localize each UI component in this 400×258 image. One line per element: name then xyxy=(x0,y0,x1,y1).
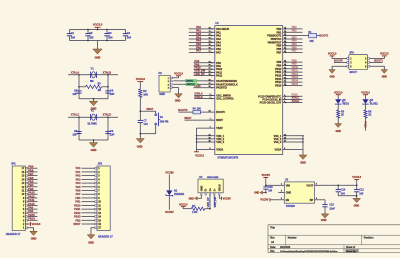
pin 15 of JP1 xyxy=(21,174,27,178)
svg-text:PB7: PB7 xyxy=(276,50,281,54)
wire right leg crystal2 xyxy=(107,117,109,140)
pin PB12 (right, pin 25) xyxy=(275,72,302,78)
svg-text:RED1: RED1 xyxy=(343,102,350,105)
ground (BP cap) xyxy=(321,214,329,222)
svg-text:GND: GND xyxy=(254,192,259,195)
svg-text:HEADER 17: HEADER 17 xyxy=(6,232,21,236)
power port VCC3.3 (P2 pin1) xyxy=(172,72,183,78)
wire + net label PA8 (JP1 pin 5) xyxy=(28,209,38,213)
svg-text:Date:: Date: xyxy=(270,246,276,249)
pin PA0-WKUP (left, pin 10) with wire and net label PA0 xyxy=(189,25,230,31)
svg-text:8M: 8M xyxy=(90,79,94,83)
node XTALC xyxy=(71,113,80,117)
pin 4 of P2 xyxy=(168,87,173,90)
svg-text:HEADER 17: HEADER 17 xyxy=(98,234,113,238)
power port VCC3.3 (JP3 right) xyxy=(370,53,390,59)
svg-text:VCC5V: VCC5V xyxy=(223,197,231,200)
pin VSSA (pin 8) xyxy=(275,147,303,151)
connector JP1 HEADER 17 xyxy=(6,162,26,236)
svg-text:VCC3.3: VCC3.3 xyxy=(361,91,370,94)
pin 15 of JP2 xyxy=(95,218,102,222)
power port VCC3.3 (R7) xyxy=(179,203,188,208)
pin 13 of JP1 xyxy=(21,181,27,185)
svg-text:BOOT: BOOT xyxy=(350,70,358,74)
svg-text:10K: 10K xyxy=(143,92,148,96)
pin PB15 (right, pin 28) xyxy=(275,82,302,88)
svg-text:104: 104 xyxy=(268,189,273,192)
power port VCC3.3 (U3 VOUT) xyxy=(352,175,361,186)
svg-text:GND: GND xyxy=(286,192,292,195)
svg-text:PC13: PC13 xyxy=(364,121,368,128)
ground (reset) xyxy=(136,133,144,149)
svg-text:XTALD: XTALD xyxy=(292,100,300,103)
svg-text:PB11: PB11 xyxy=(74,207,81,211)
svg-text:PA7: PA7 xyxy=(76,192,81,196)
push button S1 SW-PB xyxy=(155,113,169,127)
svg-text:JP3: JP3 xyxy=(349,50,354,54)
crystal Y1 8M xyxy=(90,66,96,83)
svg-text:GND: GND xyxy=(321,218,327,222)
pin 5 of JP1 xyxy=(23,211,28,215)
wire + net label PB8 (JP1 pin 16) xyxy=(28,168,38,172)
pin PB13 (right, pin 26) xyxy=(275,75,302,81)
pin 7 of JP1 xyxy=(23,203,28,207)
svg-text:PB7: PB7 xyxy=(28,172,34,176)
pin BP (4) xyxy=(310,197,319,202)
pin 11 of JP1 xyxy=(22,189,28,193)
pin 4 of JP2 xyxy=(95,177,100,181)
pin PB2/BOOT1 (right, pin 20) xyxy=(267,34,287,38)
svg-text:104: 104 xyxy=(127,36,132,40)
svg-text:Number: Number xyxy=(288,236,297,239)
wire + net label PA3 (JP2 pin 4) xyxy=(76,177,95,181)
wire U4 D- down with vertical net label USB_DM xyxy=(214,195,217,208)
svg-text:PA12: PA12 xyxy=(28,194,35,198)
capacitor C2 xyxy=(85,30,94,41)
svg-text:C12: C12 xyxy=(359,189,364,192)
pin 1 of JP2 xyxy=(95,166,100,170)
capacitor C4 xyxy=(123,30,132,41)
wire + net label PB6 (JP1 pin 14) xyxy=(28,176,38,180)
svg-text:USB_DM: USB_DM xyxy=(214,197,217,207)
pin 2 of P2 xyxy=(168,80,173,83)
capacitor C6 xyxy=(105,89,114,96)
pin 6 of JP1 xyxy=(23,207,28,211)
svg-text:104: 104 xyxy=(341,193,346,196)
svg-text:PA8: PA8 xyxy=(28,209,33,213)
pin BOOT0 (pin 44) xyxy=(201,110,226,115)
wire + net label PA1 (JP2 pin 2) xyxy=(76,170,95,174)
pin PB14 (right, pin 27) xyxy=(275,78,302,84)
svg-text:PA7: PA7 xyxy=(216,50,221,54)
pin D- of U4 (vertical label) xyxy=(212,188,216,195)
pin PB0 (right, pin 18) xyxy=(276,25,302,31)
svg-text:VSSA: VSSA xyxy=(275,147,282,151)
svg-text:USB_DP: USB_DP xyxy=(207,197,210,207)
wire crystal1 horizontal xyxy=(68,74,118,76)
svg-text:Title: Title xyxy=(270,226,276,229)
ground (crystal2) xyxy=(89,140,97,152)
pin PB1 (right, pin 19) xyxy=(276,29,302,35)
svg-text:PB15: PB15 xyxy=(292,82,299,86)
connector JP2 HEADER 17 xyxy=(97,162,113,239)
resistor R3 (crystal feedback) xyxy=(79,82,108,92)
svg-text:22P: 22P xyxy=(73,132,78,136)
svg-text:PB10: PB10 xyxy=(74,203,81,207)
ground (P2 pin4) xyxy=(172,88,182,103)
wire left leg crystal2 xyxy=(78,117,80,140)
title block texts xyxy=(270,226,374,253)
wire + net label PA6 (JP2 pin 7) xyxy=(76,189,95,193)
svg-text:GND: GND xyxy=(175,99,181,103)
power port VCC3.3 (LED D3) xyxy=(361,91,370,99)
svg-text:PA15: PA15 xyxy=(28,191,35,195)
pin PB9 (right, pin 46) xyxy=(276,62,302,68)
net label BOOT1 (JP3 right pin 4) xyxy=(370,58,384,62)
svg-text:BOOT0: BOOT0 xyxy=(216,110,225,114)
wire + net label PB4 (JP1 pin 12) xyxy=(28,183,38,187)
wire R2 to NRST node xyxy=(140,97,142,112)
pins 5/6 of JP3 xyxy=(347,66,370,69)
svg-text:PA6: PA6 xyxy=(76,189,81,193)
svg-text:PB1: PB1 xyxy=(75,200,81,204)
svg-text:GND: GND xyxy=(354,204,360,208)
pin 10 of JP1 xyxy=(21,192,27,196)
wire + net label NRST (JP2 pin 16) xyxy=(73,222,94,226)
pin PB11 (right, pin 22) xyxy=(275,68,302,74)
wire + net label PA10 (JP1 pin 7) xyxy=(28,202,38,206)
wire crystal2 horizontal xyxy=(68,116,118,118)
svg-text:PB1: PB1 xyxy=(292,29,298,33)
wire VOUT rail xyxy=(320,185,358,187)
pin PB4/NTRST (right, pin 40) xyxy=(268,39,303,45)
pin PA14/TCK/SWCLK (left, pin 37) xyxy=(194,82,238,86)
svg-text:PA0: PA0 xyxy=(76,166,81,170)
net label NRST (reset node) xyxy=(146,107,154,111)
svg-text:VSS_3: VSS_3 xyxy=(274,140,282,144)
svg-text:Y1: Y1 xyxy=(91,66,95,70)
svg-text:VIN: VIN xyxy=(286,184,290,187)
svg-text:C13: C13 xyxy=(329,204,334,207)
svg-text:Y2: Y2 xyxy=(91,109,95,113)
pin 14 of JP2 xyxy=(95,215,102,219)
svg-text:10K: 10K xyxy=(197,107,202,110)
resistor R2 10K (reset pullup) xyxy=(139,89,148,97)
wire + net label PB9 (JP1 pin 17) xyxy=(28,165,38,169)
pin VDDA (pin 9) xyxy=(197,147,224,151)
pin 9 of JP2 xyxy=(95,196,100,200)
svg-text:20P: 20P xyxy=(73,92,78,96)
svg-text:PB9: PB9 xyxy=(28,165,34,169)
svg-text:OSC_OUT/PD1: OSC_OUT/PD1 xyxy=(216,97,234,101)
svg-text:STM32F105C8T6: STM32F105C8T6 xyxy=(217,155,238,159)
svg-text:XTALD: XTALD xyxy=(103,113,112,117)
svg-text:BOOT0: BOOT0 xyxy=(178,108,188,112)
pin 10 of JP2 xyxy=(95,200,102,204)
pin 1 of P2 xyxy=(168,77,173,80)
title block frame xyxy=(268,225,400,253)
node XTALA xyxy=(71,70,80,74)
svg-text:PB0: PB0 xyxy=(75,196,81,200)
wire + net label PB13 (JP2 pin 14) xyxy=(74,215,95,219)
pin 16 of JP2 xyxy=(95,222,102,226)
wire bottom rail of cap bank xyxy=(70,40,126,42)
svg-text:PA3: PA3 xyxy=(76,177,81,181)
net label BOOT1 (R1) xyxy=(319,34,329,38)
svg-text:104: 104 xyxy=(108,36,113,40)
svg-text:1.5K: 1.5K xyxy=(192,210,198,214)
svg-text:PA12: PA12 xyxy=(216,74,223,78)
svg-text:2021/3/26: 2021/3/26 xyxy=(280,246,291,249)
svg-text:VDDA: VDDA xyxy=(216,147,223,151)
svg-text:XTALA: XTALA xyxy=(71,70,80,74)
power port VCC5V (U3 EN) xyxy=(260,198,278,202)
wire + net label PB10 (JP2 pin 11) xyxy=(74,203,95,207)
pin PA10 (left, pin 31) xyxy=(194,66,223,72)
power port VCC3.3 (cap bank) xyxy=(93,23,103,30)
svg-text:VBUS: VBUS xyxy=(217,184,221,191)
pin PB6 (right, pin 42) xyxy=(276,45,302,51)
pin 8 of JP2 xyxy=(95,192,100,196)
svg-text:PB14: PB14 xyxy=(28,217,35,221)
svg-text:VCC3.3: VCC3.3 xyxy=(352,175,361,179)
pin VIN (1) xyxy=(278,183,290,187)
pin PA2 (left, pin 12) with wire and net label PA2 xyxy=(189,32,222,38)
pin 16 of JP1 xyxy=(21,170,27,174)
svg-text:C10: C10 xyxy=(341,189,346,192)
ground (LED D2) xyxy=(335,118,342,133)
svg-text:GND: GND xyxy=(199,186,203,192)
svg-text:PB4: PB4 xyxy=(28,183,34,187)
svg-text:microusb: microusb xyxy=(207,175,219,179)
power port VCC3.3 (JP1 pin 2) xyxy=(28,222,41,226)
wire + net label PB5 (JP1 pin 13) xyxy=(28,179,38,183)
power port VCC3.3 (LED D2) xyxy=(334,91,343,99)
svg-text:P2: P2 xyxy=(159,71,163,75)
pin VDD_1 (pin 24) xyxy=(196,133,225,138)
wire NRST node to button xyxy=(140,111,155,114)
svg-text:GND: GND xyxy=(189,197,194,200)
op-amp U1 STM32 MCU body xyxy=(215,21,283,160)
wire + net label PA5 (JP2 pin 6) xyxy=(76,185,95,189)
ground (U3 GND, left arrow) xyxy=(254,191,266,195)
wire + net label PA2 (JP2 pin 3) xyxy=(76,174,95,178)
pin 2 of JP1 xyxy=(23,222,28,226)
pin 5 of JP2 xyxy=(95,181,100,185)
pin PA12 (left, pin 33) xyxy=(194,72,223,78)
svg-text:20P: 20P xyxy=(110,92,115,96)
LED D3 BLUE1 xyxy=(362,99,378,105)
svg-text:VCC3.3: VCC3.3 xyxy=(334,91,343,94)
capacitor C5 xyxy=(73,89,82,96)
wire + net label PA12 (JP1 pin 9) xyxy=(28,194,38,198)
pin D+ of U4 (vertical label) xyxy=(208,187,212,195)
svg-text:BOOT1: BOOT1 xyxy=(374,58,383,62)
svg-text:C:\Users\Admin\Desktop\STM32F1: C:\Users\Admin\Desktop\STM32F105C8T6\STM… xyxy=(280,250,338,253)
pin PA5 (left, pin 15) with wire and net label PA5 xyxy=(189,42,222,48)
svg-text:PB7: PB7 xyxy=(292,49,298,53)
pin 12 of JP2 xyxy=(95,207,102,211)
capacitor C16 104 (input) xyxy=(263,185,273,193)
pin 3 of JP2 xyxy=(95,174,100,178)
ground (JP3 left pin 5) xyxy=(329,66,347,78)
pin VBAT (pin 1) xyxy=(197,126,224,130)
wire + net label PB15 (JP1 pin 4) xyxy=(28,213,38,217)
wire + net label PA11 (JP1 pin 8) xyxy=(28,198,38,202)
svg-text:VCC3.3: VCC3.3 xyxy=(93,23,103,27)
wire U4 D+ down to R7 junction with vertical net label USB_DP xyxy=(207,195,211,210)
svg-text:VCC5V: VCC5V xyxy=(260,199,268,202)
power port VCC3.3 (JP3 left) xyxy=(328,53,347,59)
capacitor C8 xyxy=(73,129,82,136)
svg-text:VCCIN: VCCIN xyxy=(165,170,173,174)
power port VCC5V (zener bottom) xyxy=(165,196,174,214)
wire + net label PA4 (JP2 pin 5) xyxy=(76,181,95,185)
zener diode D1 xyxy=(166,188,185,196)
capacitor C1 xyxy=(67,30,76,41)
pin OSC_OUT/PD1 (pin 6) with net label XTALB xyxy=(194,95,234,101)
ground (U4 GND pin, left arrow) xyxy=(189,195,202,200)
power port VCC3.3 (reset) xyxy=(136,77,146,89)
svg-text:PA7: PA7 xyxy=(196,49,201,53)
resistor R1 10K (BOOT1) xyxy=(283,31,319,43)
wire VDD vertical bus + power port VCC3.3 xyxy=(194,128,204,157)
wire left leg crystal1 xyxy=(78,75,80,99)
svg-text:1K: 1K xyxy=(368,114,371,117)
svg-text:22nF: 22nF xyxy=(329,207,335,210)
svg-text:VDD_3: VDD_3 xyxy=(216,140,225,144)
pin 1 of JP1 xyxy=(23,226,28,230)
svg-text:NRST: NRST xyxy=(146,107,154,111)
pin VSS_2 (pin 35) xyxy=(274,137,304,141)
pins 3/4 of JP3 xyxy=(347,61,370,64)
pin GND (2) xyxy=(278,191,291,195)
svg-text:NRST: NRST xyxy=(73,222,81,226)
wire SWCLK from P2 pin3 to U1 with green net label SWCLK xyxy=(173,83,197,86)
svg-text:JP2: JP2 xyxy=(98,162,103,166)
wire + net label PB3 (JP1 pin 11) xyxy=(28,187,38,191)
pin VSS_3 (pin 47) xyxy=(274,140,304,145)
svg-text:VCC3.3: VCC3.3 xyxy=(179,203,188,206)
wire LED D3 to net label PC13 (vertical) xyxy=(364,118,368,131)
ground (crystal1) xyxy=(89,99,97,111)
svg-text:GND: GND xyxy=(31,237,37,241)
svg-text:R7: R7 xyxy=(192,204,196,208)
svg-text:VCC5V: VCC5V xyxy=(262,173,271,177)
power port VCC5V (U3 VIN) xyxy=(262,173,279,186)
net label BOOT0 (JP3 left pin 3) xyxy=(334,58,347,62)
pin PA4 (left, pin 14) with wire and net label PA4 xyxy=(189,39,222,45)
svg-text:NRST: NRST xyxy=(184,116,192,120)
svg-text:SWDIO: SWDIO xyxy=(186,80,194,82)
svg-text:22P: 22P xyxy=(110,132,115,136)
pin PA15/TDI (left, pin 38) xyxy=(194,84,228,90)
svg-text:Size: Size xyxy=(270,236,275,239)
pins 1/2 of JP3 xyxy=(347,58,370,61)
wire + net label PB0 (JP2 pin 9) xyxy=(75,196,94,200)
svg-text:GND: GND xyxy=(300,161,306,165)
svg-text:VBAT: VBAT xyxy=(216,126,223,130)
pin 17 of JP2 xyxy=(95,226,102,230)
pin 2 of JP2 xyxy=(95,170,100,174)
pin VSS_1 (pin 23) xyxy=(274,134,304,138)
svg-text:GND: GND xyxy=(137,144,143,148)
pin PC15-OSC32_OUT (right, pin 4) xyxy=(260,100,303,105)
pin PA3 (left, pin 13) with wire and net label PA3 xyxy=(189,35,222,41)
svg-text:SWD: SWD xyxy=(159,92,165,96)
pin PA9 (left, pin 30) xyxy=(194,62,222,68)
svg-text:SWCLK: SWCLK xyxy=(187,84,195,86)
wire + net label PA9 (JP1 pin 6) xyxy=(28,206,38,210)
svg-text:PB3: PB3 xyxy=(28,187,34,191)
svg-text:PB5: PB5 xyxy=(28,179,34,183)
pin 3 of P2 xyxy=(168,84,173,87)
pin PC13-TAMPER-RTC (right, pin 2) xyxy=(258,94,302,99)
svg-text:GND: GND xyxy=(91,148,97,152)
svg-text:XTALB: XTALB xyxy=(103,70,112,74)
svg-text:PB15: PB15 xyxy=(275,83,282,87)
power port VCCIN (zener top) xyxy=(165,170,173,190)
connector U4 microusb xyxy=(198,175,223,193)
svg-text:D-: D- xyxy=(212,188,216,191)
ground (JP2 pin 17) xyxy=(87,228,95,245)
pin PA13/TMS/SWDIO (left, pin 34) xyxy=(194,78,238,83)
svg-text:XTALC: XTALC xyxy=(71,113,80,117)
svg-text:105: 105 xyxy=(89,36,94,40)
wire button bottom to rail xyxy=(140,125,155,134)
svg-text:File:: File: xyxy=(270,250,275,253)
wire + net label PB2 (JP2 pin 15) xyxy=(75,218,94,222)
wire + net label PA7 (JP2 pin 8) xyxy=(76,192,95,196)
pin VOUT (5) xyxy=(306,183,320,187)
pin ID of U4 (vertical label) xyxy=(204,189,208,195)
pin 8 of JP1 xyxy=(23,200,28,204)
svg-text:PA5: PA5 xyxy=(76,185,81,189)
svg-text:BP: BP xyxy=(310,199,314,202)
svg-text:PA9: PA9 xyxy=(28,206,33,210)
svg-text:RT9193: RT9193 xyxy=(286,204,296,208)
wire bottom rail crystal1 xyxy=(79,98,108,100)
svg-text:PA1: PA1 xyxy=(76,170,81,174)
svg-text:1K: 1K xyxy=(341,114,344,117)
crystal Y2 32.768K xyxy=(87,109,97,126)
pin 12 of JP1 xyxy=(21,185,27,189)
capacitor C10 104 (output) xyxy=(336,185,346,196)
op-amp U3 RT9193 body xyxy=(284,178,314,208)
pin 4 of JP1 xyxy=(23,215,28,219)
resistor R5 1K xyxy=(337,104,345,118)
svg-text:PA10: PA10 xyxy=(28,202,35,206)
ground (JP3 right pin 6) xyxy=(370,66,388,78)
pin NRST (pin 7) with net label NRST xyxy=(184,116,223,122)
svg-text:Revision: Revision xyxy=(364,236,374,239)
pin GND of U4 (vertical label) xyxy=(199,186,203,195)
pin 14 of JP1 xyxy=(21,177,27,181)
svg-text:PC15-OSC32_OUT: PC15-OSC32_OUT xyxy=(260,101,282,105)
pin PB10 (right, pin 21) xyxy=(275,65,302,71)
svg-text:Sheet of: Sheet of xyxy=(346,246,355,249)
svg-text:PA15/TDI: PA15/TDI xyxy=(216,86,227,90)
svg-text:ID: ID xyxy=(204,189,208,192)
wire output cap rail + ground xyxy=(338,195,360,208)
svg-text:D+: D+ xyxy=(208,187,212,191)
svg-text:10K: 10K xyxy=(309,40,314,43)
wire + net label PA0 (JP2 pin 1) xyxy=(76,166,95,170)
connector JP3 BOOT jumper xyxy=(349,50,368,74)
svg-text:104: 104 xyxy=(71,36,76,40)
pin PB3/TDO (right, pin 39) xyxy=(271,35,303,41)
power port VCC5V (U4 VBUS) xyxy=(219,195,231,200)
